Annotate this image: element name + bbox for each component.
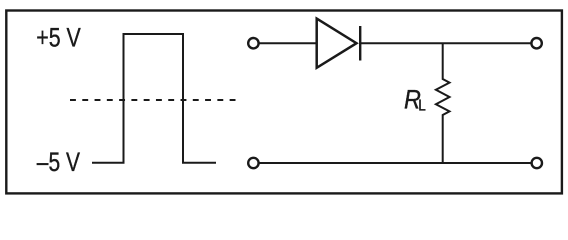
svg-text:–5 V: –5 V: [37, 147, 80, 177]
svg-text:L: L: [418, 97, 426, 114]
svg-text:+5 V: +5 V: [36, 22, 81, 52]
